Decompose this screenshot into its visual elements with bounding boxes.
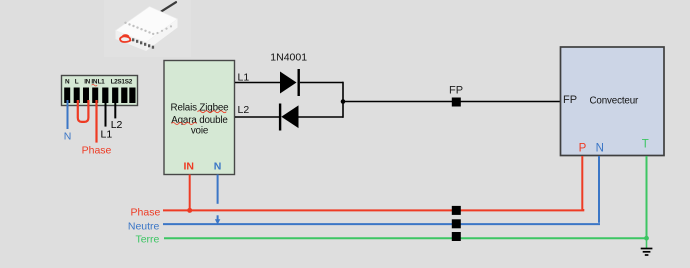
relay module U1: Relais Zigbee Aqara double voie (164, 61, 235, 175)
svg-text:N: N (65, 78, 70, 85)
wire Terre bus (green) (164, 237, 647, 239)
wire T vertical (green) (646, 156, 648, 238)
svg-text:L1: L1 (98, 78, 106, 85)
svg-text:S2: S2 (125, 78, 133, 85)
junction dot diode node (341, 99, 346, 104)
wire Phase (red) from terminal block (95, 100, 97, 143)
wire vertical joining diodes (342, 82, 344, 118)
diode D2 1N4001 (279, 104, 299, 131)
junction square Neutre (452, 219, 461, 228)
svg-text:FP: FP (563, 94, 577, 106)
svg-text:Terre: Terre (135, 233, 159, 245)
svg-text:Convecteur: Convecteur (590, 96, 639, 107)
svg-text:Phase: Phase (82, 145, 112, 157)
wire N vertical lower segment with arrowhead (215, 215, 220, 224)
svg-text:Relais Zigbee: Relais Zigbee (171, 102, 230, 113)
wire IN vertical (red, module to Phase) (189, 175, 191, 211)
junction square Phase (452, 206, 461, 215)
svg-text:IN: IN (183, 160, 194, 172)
wire N (blue) from terminal block (67, 100, 69, 129)
diode D1 1N4001 (280, 69, 300, 96)
svg-text:L2: L2 (111, 119, 123, 131)
svg-text:voie: voie (191, 126, 209, 137)
svg-text:L1: L1 (238, 71, 250, 83)
svg-text:N: N (214, 160, 222, 172)
wire L1 to diode D1 (235, 82, 280, 84)
svg-text:Neutre: Neutre (128, 221, 160, 233)
wire L1 (black) from terminal block (105, 100, 107, 127)
wire L2 (black) from terminal block (114, 100, 116, 118)
svg-text:Aqara double: Aqara double (171, 115, 228, 126)
junction square Terre (452, 232, 461, 241)
wire L2 to diode D2 (235, 116, 280, 118)
ground (terre) symbol (641, 238, 653, 255)
Aqara relay device photo (104, 0, 191, 57)
wire N vertical upper segment (module to crossing gap) (217, 175, 219, 204)
svg-text:T: T (642, 138, 649, 150)
svg-text:1N4001: 1N4001 (270, 52, 307, 64)
convecteur (heater) (561, 47, 665, 156)
svg-text:P: P (579, 142, 587, 154)
wire N vertical (blue) (598, 156, 600, 223)
svg-text:N: N (64, 131, 72, 143)
svg-text:FP: FP (449, 85, 463, 97)
wire shunt L-IN (red U-loop) (78, 100, 89, 122)
svg-text:Phase: Phase (131, 207, 161, 219)
wire fil pilote FP (343, 101, 561, 103)
spellcheck squiggle under Aqara (172, 123, 197, 125)
junction dot Terre (644, 236, 649, 241)
wire D1 to node (300, 82, 343, 84)
junction dot IN-Phase (187, 208, 192, 213)
wire Neutre bus (blue) (163, 223, 600, 225)
terminal block TB1 (62, 76, 138, 106)
svg-text:N: N (596, 142, 604, 154)
spellcheck squiggle under Zigbee (198, 111, 227, 113)
svg-text:L: L (75, 78, 79, 85)
wire Phase bus (red) (163, 209, 583, 210)
wire D2 to node (299, 116, 344, 118)
svg-text:IN: IN (84, 78, 90, 85)
spellcheck squiggle under IN (92, 84, 98, 86)
svg-text:L2: L2 (238, 104, 250, 116)
wire P vertical (red) (581, 156, 583, 209)
junction square FP (452, 98, 461, 107)
